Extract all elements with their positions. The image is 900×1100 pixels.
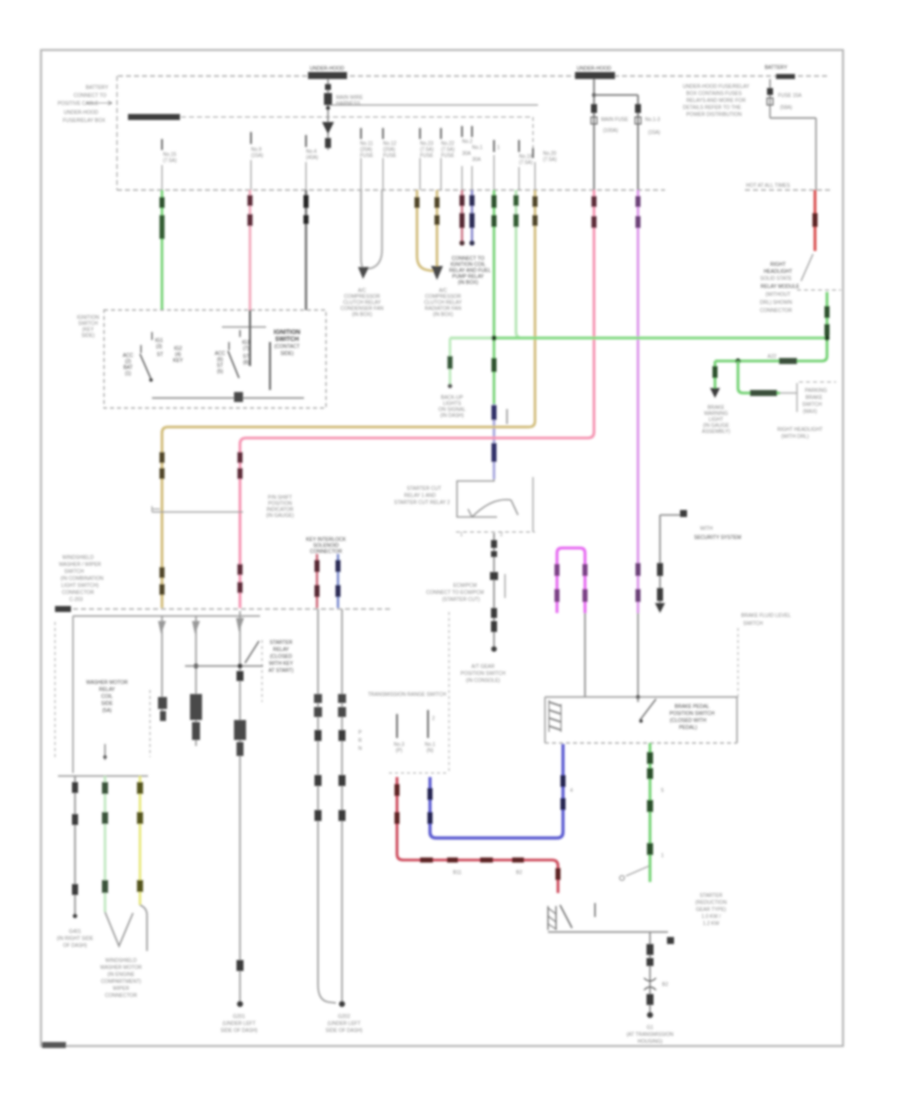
small stub under funnel	[104, 744, 106, 760]
wire gray below relay x494	[490, 533, 505, 652]
with DRL note	[777, 427, 822, 440]
ignition common rail	[152, 397, 304, 399]
svg-text:WITH KEY: WITH KEY	[269, 661, 294, 667]
svg-text:(IN BOX): (IN BOX)	[352, 312, 373, 318]
svg-text:(WITHOUT: (WITHOUT	[766, 292, 791, 298]
gray tie line y512	[152, 511, 243, 513]
svg-text:(CLOSED: (CLOSED	[270, 654, 293, 660]
svg-text:ST: ST	[157, 352, 163, 358]
wire tan pair x417 x437 to arrow	[415, 190, 444, 280]
svg-text:(5A): (5A)	[102, 708, 112, 714]
dashed stub right headlight	[797, 289, 841, 291]
svg-text:30A: 30A	[472, 157, 482, 163]
wire pink x250	[248, 190, 253, 310]
svg-text:CONNECTOR: CONNECTOR	[105, 993, 138, 999]
svg-text:SWITCH: SWITCH	[743, 621, 763, 627]
wire red short x462	[459, 190, 464, 246]
junction dot at pedal box top	[636, 695, 640, 699]
wire red bottom	[395, 777, 561, 893]
svg-text:SIDE: SIDE	[101, 701, 113, 707]
green branch x738 down to y393	[738, 361, 743, 393]
svg-text:CONNECTOR: CONNECTOR	[760, 308, 793, 314]
svg-text:WASHER MOTOR: WASHER MOTOR	[86, 680, 128, 686]
svg-text:HOUSING): HOUSING)	[638, 1039, 663, 1045]
svg-text:RELAYS AND MORE FOR: RELAYS AND MORE FOR	[686, 98, 746, 104]
svg-text:SWITCH: SWITCH	[802, 402, 822, 408]
dashed bracket x262	[261, 640, 263, 702]
svg-text:FUSE: FUSE	[383, 153, 397, 159]
svg-text:PEDAL): PEDAL)	[679, 725, 697, 731]
starter label	[695, 893, 727, 927]
fuse F5 x=383	[383, 128, 397, 159]
battery branch right: fuse	[767, 79, 816, 190]
svg-text:FUSE: FUSE	[360, 153, 374, 159]
fuse/relay box bottom dashed edge	[117, 189, 665, 191]
svg-text:(15A): (15A)	[251, 153, 264, 159]
right rect: node at 594/95	[592, 79, 638, 190]
ignition switch middle contacts	[215, 340, 251, 378]
ignition box left label	[77, 315, 100, 339]
svg-text:RELAY MODULE: RELAY MODULE	[761, 284, 800, 290]
svg-text:(UNDER LEFT: (UNDER LEFT	[222, 1021, 255, 1027]
yellow tail corner	[140, 905, 147, 951]
svg-text:SIDE OF DASH): SIDE OF DASH)	[221, 1028, 258, 1034]
svg-text:(8): (8)	[243, 360, 249, 366]
interlock label	[306, 537, 347, 555]
right headlight label	[760, 262, 800, 314]
green stub x450	[448, 338, 453, 388]
dashed drop x738	[737, 628, 739, 700]
svg-text:IGNITION: IGNITION	[274, 330, 301, 336]
svg-text:(40A): (40A)	[306, 155, 319, 161]
ignition bold label	[274, 330, 301, 357]
svg-text:COIL: COIL	[101, 694, 113, 700]
ignition box outline	[104, 310, 326, 408]
svg-text:(7.5A): (7.5A)	[519, 160, 533, 166]
svg-text:(IN RIGHT SIDE: (IN RIGHT SIDE	[57, 936, 94, 942]
component pyramid A/C left	[340, 288, 383, 318]
SECTION: starter motor bottom	[548, 903, 674, 944]
svg-text:(CONTACT: (CONTACT	[274, 344, 299, 350]
wire pink x594 down to corner	[588, 190, 597, 438]
svg-text:C-203: C-203	[69, 597, 83, 603]
dashed line y609	[73, 608, 390, 610]
cross rail y666	[185, 665, 263, 667]
svg-text:(IN CONSOLE): (IN CONSOLE)	[466, 678, 501, 684]
svg-text:G202: G202	[338, 1014, 350, 1020]
svg-text:BOX CONTAINS FUSES: BOX CONTAINS FUSES	[686, 91, 742, 97]
fuse-to-box stubs	[162, 155, 535, 190]
svg-text:SWITCH: SWITCH	[64, 569, 84, 575]
washer motor label block	[100, 958, 142, 999]
wire pink corner x240	[240, 438, 246, 608]
green horizontal y393	[743, 392, 780, 395]
svg-text:(WITH DRL): (WITH DRL)	[781, 434, 809, 440]
svg-text:AT START): AT START)	[269, 668, 294, 674]
svg-text:G401: G401	[69, 929, 81, 935]
wire red x317 interlock	[315, 554, 320, 608]
svg-text:PARKING: PARKING	[805, 388, 827, 394]
wire gray x75	[72, 776, 78, 918]
wire green horizontal y361	[715, 360, 822, 363]
trans box outline	[389, 772, 448, 774]
wire blue x338 interlock	[336, 554, 341, 608]
svg-text:5: 5	[661, 788, 664, 794]
svg-text:B11: B11	[453, 870, 462, 876]
svg-text:STARTER CUT: STARTER CUT	[407, 486, 442, 492]
right label block (under-hood description)	[683, 84, 750, 118]
wire black x306	[304, 190, 309, 310]
pyramid under dot	[461, 664, 506, 684]
svg-text:FUSE 15A: FUSE 15A	[778, 93, 802, 99]
left box edges	[54, 622, 56, 760]
svg-text:B2: B2	[662, 982, 668, 988]
wire green x650 below pedal box	[647, 743, 664, 882]
wire red x815 right headlight	[801, 190, 818, 281]
wire x240 long to ground	[234, 611, 246, 1007]
SECTION: horn branch	[655, 510, 687, 613]
svg-text:(58A): (58A)	[780, 105, 793, 111]
svg-text:RIGHT HEADLIGHT: RIGHT HEADLIGHT	[777, 427, 822, 433]
ground pyramid left	[57, 929, 94, 949]
wire x162 drop	[158, 616, 167, 721]
svg-text:(15A): (15A)	[648, 130, 661, 136]
bottom rail y776	[58, 775, 148, 777]
left label block	[55, 555, 104, 612]
svg-text:(100A): (100A)	[603, 128, 618, 134]
fuse F7 x=441	[441, 128, 455, 159]
wire tan corner x162	[162, 427, 168, 608]
starter relay diagonal	[245, 641, 259, 663]
fuse/relay box top dashed edge	[118, 75, 830, 77]
svg-text:COMPARTMENT): COMPARTMENT)	[101, 979, 142, 985]
svg-text:WITH: WITH	[700, 526, 713, 532]
wire green x162	[160, 190, 165, 310]
svg-text:(N): (N)	[427, 748, 434, 754]
trans fuse 2	[425, 710, 436, 754]
svg-text:(3): (3)	[156, 344, 162, 350]
svg-text:POWER DISTRIBUTION: POWER DISTRIBUTION	[686, 112, 742, 118]
svg-text:SOLID STATE: SOLID STATE	[760, 276, 792, 282]
svg-text:N: N	[358, 746, 362, 752]
ground G1 pyramid	[627, 1025, 674, 1045]
svg-text:(IN DASH): (IN DASH)	[440, 413, 464, 419]
svg-text:UNDER-HOOD: UNDER-HOOD	[310, 66, 345, 72]
ground G202 pyramid	[326, 1014, 363, 1034]
svg-text:(IN GAUGE): (IN GAUGE)	[266, 513, 294, 519]
svg-text:BRAKE: BRAKE	[806, 395, 824, 401]
ignition dark wire inside	[249, 310, 251, 366]
wire yellow x140	[137, 776, 143, 905]
pedal box outline	[545, 697, 737, 743]
svg-text:POSITIVE CABLE: POSITIVE CABLE	[58, 101, 100, 107]
dashed bracket x450	[448, 612, 450, 774]
label ignition coil relay	[449, 256, 491, 286]
svg-text:R: R	[358, 738, 362, 744]
svg-text:TRANSMISSION RANGE SWITCH: TRANSMISSION RANGE SWITCH	[368, 692, 447, 698]
component pyramid A/C right	[424, 288, 462, 318]
inner dashed corner down	[532, 117, 534, 148]
wire gray x638 lower into box	[637, 613, 639, 697]
svg-text:1: 1	[497, 145, 500, 151]
fuse F9 x=494	[494, 140, 500, 152]
wire x318 long	[314, 609, 336, 1003]
svg-text:STARTER: STARTER	[270, 640, 293, 646]
svg-text:(5): (5)	[217, 369, 223, 375]
wire x196 drop	[190, 616, 202, 746]
svg-text:RELAY: RELAY	[99, 687, 116, 693]
ignition cluster ticks	[141, 330, 240, 353]
ground G201 pyramid	[221, 1014, 258, 1034]
svg-text:SIDE): SIDE)	[81, 333, 95, 339]
svg-text:G1: G1	[647, 1025, 654, 1031]
svg-text:WASHER MOTOR: WASHER MOTOR	[100, 965, 142, 971]
green stub x715 with arrow	[710, 361, 720, 398]
SECTION: magenta U	[555, 548, 588, 613]
funnel component	[86, 680, 128, 714]
wire tan horizontal y427	[168, 426, 529, 429]
fuse F11 x=533	[533, 148, 557, 163]
svg-text:RELAY: RELAY	[273, 647, 290, 653]
svg-text:UNDER-HOOD FUSE/RELAY: UNDER-HOOD FUSE/RELAY	[683, 84, 750, 90]
svg-text:(IN ENGINE: (IN ENGINE	[107, 972, 135, 978]
svg-text:HOT AT ALL TIMES: HOT AT ALL TIMES	[746, 183, 791, 189]
ECM label	[426, 583, 484, 603]
trans fuse 1	[394, 714, 405, 754]
pedal switch label	[670, 704, 715, 731]
svg-text:(CLOSED WITH: (CLOSED WITH	[670, 718, 707, 724]
svg-text:(IN BOX): (IN BOX)	[458, 280, 479, 286]
pedal box connector left	[549, 700, 561, 732]
svg-text:SWITCH: SWITCH	[275, 337, 299, 343]
dashed edge right segment	[745, 189, 831, 191]
svg-text:(7): (7)	[243, 346, 249, 352]
svg-text:FUSE: FUSE	[420, 153, 434, 159]
ignition switch bar	[222, 326, 266, 328]
wire pale green x516	[514, 190, 523, 338]
gray continuation to switch	[780, 392, 797, 394]
battery label block top-left	[58, 85, 112, 124]
svg-text:1: 1	[661, 853, 664, 859]
svg-text:(IN COMBINATION: (IN COMBINATION	[61, 576, 104, 582]
svg-text:G201: G201	[233, 1014, 245, 1020]
svg-text:No.1: No.1	[472, 145, 483, 151]
svg-text:GEAR TYPE): GEAR TYPE)	[696, 907, 727, 913]
svg-text:A/T GEAR: A/T GEAR	[471, 664, 495, 670]
page number tab	[42, 1042, 66, 1048]
svg-text:(7.5A): (7.5A)	[543, 157, 557, 163]
tan marks	[160, 452, 165, 463]
pale left part	[450, 337, 494, 340]
svg-text:(P): (P)	[396, 748, 403, 754]
svg-text:LIGHT SWITCH): LIGHT SWITCH)	[61, 583, 99, 589]
trans left tiny labels	[358, 730, 362, 752]
pink marks	[238, 452, 243, 463]
svg-text:UNDER-HOOD: UNDER-HOOD	[577, 66, 612, 72]
pyramid label under x715	[702, 405, 731, 435]
fuse F10 x=519	[519, 140, 533, 166]
svg-text:(AT TRANSMISSION: (AT TRANSMISSION	[627, 1032, 674, 1038]
wire x342 long	[338, 609, 346, 1007]
svg-text:WIPER: WIPER	[113, 986, 130, 992]
svg-text:BRAKE PEDAL: BRAKE PEDAL	[675, 704, 710, 710]
wire x650 to ground G1	[644, 932, 668, 1018]
wire tan x535 down to corner	[529, 190, 538, 427]
V connector	[105, 912, 133, 946]
svg-text:RIGHT: RIGHT	[770, 262, 786, 268]
svg-text:BRAKE FLUID LEVEL: BRAKE FLUID LEVEL	[741, 613, 791, 619]
junction dot green x494	[491, 335, 496, 340]
wire green right vertical x827	[822, 292, 830, 361]
fuse main2 x=638	[635, 104, 661, 136]
svg-text:(UNDER LEFT: (UNDER LEFT	[327, 1021, 360, 1027]
ignition right post	[269, 342, 271, 390]
svg-text:STARTER CUT RELAY 2: STARTER CUT RELAY 2	[394, 500, 450, 506]
svg-text:WINDSHIELD: WINDSHIELD	[105, 958, 137, 964]
fuse F2 x=251	[251, 132, 264, 159]
svg-text:4: 4	[570, 788, 573, 794]
ignition switch left contacts	[123, 338, 184, 382]
relay label left	[394, 486, 450, 506]
svg-text:POSITION SWITCH: POSITION SWITCH	[461, 671, 506, 677]
ignition rail junction	[234, 392, 243, 402]
svg-text:FUSE/RELAY BOX: FUSE/RELAY BOX	[63, 118, 106, 124]
inner dashed line	[181, 116, 531, 118]
svg-text:POSITION SWITCH: POSITION SWITCH	[670, 711, 715, 717]
svg-text:(7.5A): (7.5A)	[163, 158, 177, 164]
hot-in bold dash inside box	[128, 114, 180, 120]
svg-text:STARTER: STARTER	[700, 893, 723, 899]
svg-text:1.2 KW: 1.2 KW	[703, 921, 720, 927]
label P/N position	[266, 495, 294, 519]
svg-text:WASHER / WIPER: WASHER / WIPER	[59, 562, 102, 568]
svg-text:ECM/PCM: ECM/PCM	[453, 583, 477, 589]
svg-text:CONNECT TO ECM/PCM: CONNECT TO ECM/PCM	[426, 590, 484, 596]
svg-text:SECURITY SYSTEM: SECURITY SYSTEM	[694, 535, 741, 541]
svg-text:UNDER-HOOD: UNDER-HOOD	[64, 110, 99, 116]
svg-text:(IN BOX): (IN BOX)	[433, 312, 454, 318]
svg-text:CONNECT TO: CONNECT TO	[74, 93, 107, 99]
svg-text:(REDUCTION: (REDUCTION	[695, 900, 727, 906]
svg-text:(STARTER CUT): (STARTER CUT)	[442, 597, 480, 603]
wire pink horizontal y438	[246, 437, 588, 440]
wire pale green x105	[102, 776, 108, 912]
parking brake switch label mid-right	[741, 613, 791, 627]
fuse F4 x=361	[360, 128, 374, 159]
svg-text:MAIN FUSE: MAIN FUSE	[601, 117, 629, 123]
brake switch diagonal bottom	[620, 866, 649, 880]
svg-text:KEY: KEY	[173, 358, 184, 364]
wire green horizontal y338	[450, 337, 827, 340]
svg-text:30A: 30A	[462, 151, 472, 157]
svg-text:FUSE: FUSE	[441, 153, 455, 159]
labels right of green	[802, 388, 827, 415]
wire gray pair x361 x382 to arrow	[358, 190, 382, 279]
gray leg below magenta right	[584, 613, 586, 697]
wire blue short x472	[469, 190, 474, 246]
svg-text:2: 2	[432, 716, 435, 722]
svg-text:2: 2	[500, 532, 503, 538]
fuse/relay box left edge	[116, 76, 118, 190]
fuse F6 x=420	[420, 128, 434, 159]
svg-text:HEADLIGHT: HEADLIGHT	[764, 269, 793, 275]
svg-text:ASSEMBLY): ASSEMBLY)	[702, 429, 731, 435]
svg-text:A22: A22	[768, 354, 777, 360]
horn label	[694, 526, 741, 541]
svg-text:BATTERY: BATTERY	[86, 85, 109, 91]
starter relay label	[269, 640, 294, 674]
svg-text:WINDSHIELD: WINDSHIELD	[62, 555, 94, 561]
fuse F3 x=306	[306, 135, 319, 161]
wire green x494 long	[492, 190, 497, 404]
pedal switch diagonal	[638, 697, 656, 723]
inner solid line	[330, 104, 538, 106]
pin tick beside lavender wire	[506, 409, 508, 424]
svg-text:No.1-3: No.1-3	[645, 117, 660, 123]
svg-text:BATTERY: BATTERY	[765, 65, 788, 71]
fuse main1 x=594	[591, 104, 629, 134]
dashed v x150	[149, 690, 151, 757]
svg-text:1: 1	[460, 532, 463, 538]
svg-text:(1): (1)	[125, 371, 131, 377]
svg-text:B2: B2	[516, 870, 522, 876]
svg-text:SIDE OF DASH): SIDE OF DASH)	[326, 1028, 363, 1034]
fuse F1 x=162	[162, 139, 177, 164]
svg-text:RELAY 1 AND: RELAY 1 AND	[404, 493, 436, 499]
svg-text:OF DASH): OF DASH)	[63, 943, 87, 949]
battery feed wire x=328	[322, 79, 364, 150]
svg-text:CONNECTOR: CONNECTOR	[62, 590, 95, 596]
fuse F8 pair x=462 x=472	[462, 126, 483, 163]
solid line y616	[73, 615, 260, 617]
wire blue U	[428, 744, 574, 838]
pyramid label under stub	[438, 395, 465, 419]
svg-text:DRL) SHOWN: DRL) SHOWN	[760, 300, 793, 306]
wire violet x638	[636, 190, 641, 613]
svg-text:DETAILS REFER TO THE: DETAILS REFER TO THE	[683, 105, 742, 111]
svg-text:(MAX): (MAX)	[803, 409, 818, 415]
relay body	[456, 477, 535, 538]
wire lavender x494 lower	[492, 404, 497, 479]
svg-text:SIDE): SIDE)	[280, 351, 294, 357]
junction dot x738	[735, 358, 740, 363]
svg-text:HARNESS: HARNESS	[336, 101, 361, 107]
svg-text:1.0 KW /: 1.0 KW /	[701, 914, 721, 920]
